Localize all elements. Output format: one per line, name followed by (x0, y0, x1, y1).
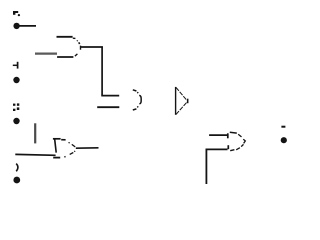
and-gate G1 top edge (57, 37, 76, 39)
wire G1 output vertical drop (101, 46, 103, 95)
and-gate G1 bottom edge (57, 56, 73, 58)
wire into gate G4 lower input with corner (206, 149, 227, 184)
buffer U1 triangle (176, 87, 188, 115)
and-gate G2 right arc (sketchy) (133, 90, 141, 110)
or-gate G3 bottom edge (53, 157, 65, 158)
or-gate G3 left edge (55, 139, 57, 152)
and-gate G1 right arc (75, 40, 81, 56)
wire (gray) into gate G1 lower input (35, 52, 57, 54)
input terminal dot A (13, 23, 19, 29)
input terminal dot D (13, 177, 20, 184)
wire G3 output (76, 147, 99, 149)
node label C (four-dot glyph) (13, 103, 19, 111)
or-gate G3 right point (69, 142, 76, 154)
pin tick G4 upper (227, 133, 229, 138)
node label B (turnstile glyph) (13, 62, 18, 69)
wire into G3 bottom input (15, 153, 55, 156)
pin tick G4 lower (227, 145, 229, 149)
or-gate G3 top edge (53, 139, 66, 140)
input terminal dot B (13, 77, 19, 83)
output dash label (281, 126, 285, 128)
stub wire (gray vertical) (34, 123, 36, 143)
or-gate G4 body (dashed) (230, 132, 246, 150)
node label D (paren glyph) (16, 164, 18, 171)
wire from terminal A (19, 25, 36, 27)
wire into gate G4 upper input (209, 134, 227, 136)
input terminal dot C (13, 118, 19, 124)
wire into gate G2 upper input (101, 95, 119, 97)
wire G1 output horizontal (80, 46, 103, 48)
wire into gate G2 lower input (97, 106, 119, 108)
output terminal dot (281, 137, 287, 143)
node label A (top-left squiggle) (13, 11, 20, 16)
